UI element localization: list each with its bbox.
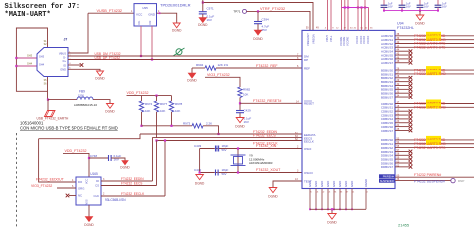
highlight	[426, 70, 441, 75]
svg-text:GND: GND	[326, 181, 330, 187]
svg-text:ID: ID	[63, 63, 66, 67]
svg-text:VCC: VCC	[86, 179, 89, 184]
svg-text:GND: GND	[338, 181, 342, 187]
svg-text:DP: DP	[304, 58, 308, 62]
svg-text:A4X33S12M00003: A4X33S12M00003	[249, 161, 273, 165]
svg-text:FT4232_EECS: FT4232_EECS	[121, 181, 142, 185]
wire GND pin 1	[309, 189, 311, 210]
svg-text:R978: R978	[175, 102, 183, 106]
capacitor C433	[215, 146, 217, 152]
svg-text:VREGIN: VREGIN	[311, 34, 315, 44]
wire EEPROM CLK	[101, 195, 165, 197]
wire BDBUS6 no-connect stub	[395, 92, 409, 94]
wire FT4232_UART2_RXD	[395, 106, 474, 108]
wire FB9 to DGND	[93, 100, 110, 104]
svg-text:NC: NC	[78, 194, 82, 198]
svg-text:VIO3_FT4232: VIO3_FT4232	[207, 73, 230, 77]
svg-text:2.2K: 2.2K	[206, 121, 212, 125]
capacitor C394	[254, 21, 262, 23]
svg-text:DGND: DGND	[235, 125, 245, 129]
wire caps rail to DGND	[419, 11, 421, 15]
wire TPD GND to DGND	[157, 13, 177, 23]
svg-text:DGND: DGND	[268, 195, 278, 199]
wire GND pin 3	[321, 189, 323, 210]
wire BDBUS3 no-connect stub	[395, 81, 409, 83]
wire VPHY stub	[327, 0, 329, 30]
wire FT4232_EEDIN line	[140, 133, 302, 135]
svg-text:GND: GND	[314, 181, 318, 187]
svg-text:CON MICRO USB-B TYPE 5POS FEMA: CON MICRO USB-B TYPE 5POS FEMALE RT SMD	[20, 126, 118, 131]
wire bottom ground rail	[310, 208, 366, 210]
wire EECLK vertical to EEPROM CLK	[164, 141, 166, 197]
rail VCC magenta	[342, 7, 369, 9]
wire VBUS	[68, 13, 88, 53]
ESD chip U95 TPD2E001DRLR	[134, 4, 157, 26]
pin PWREN# highlighted	[379, 174, 395, 178]
svg-text:10K: 10K	[160, 109, 165, 113]
svg-text:FT4232 PWREN#: FT4232 PWREN#	[414, 173, 441, 177]
svg-text:93LC56B-I/SN: 93LC56B-I/SN	[105, 198, 126, 202]
svg-text:GND: GND	[332, 181, 336, 187]
ground DGND bottom of IC	[328, 214, 336, 220]
svg-text:DGND: DGND	[84, 223, 94, 227]
junction EEDATA	[217, 133, 219, 135]
svg-text:C429: C429	[244, 109, 252, 113]
svg-text:10K: 10K	[145, 109, 150, 113]
junction IO1 on DM line	[140, 55, 142, 57]
svg-text:16V: 16V	[424, 5, 429, 9]
svg-text:50V: 50V	[222, 148, 227, 152]
svg-text:16V: 16V	[406, 5, 411, 9]
junction IO2 on DP line	[151, 58, 153, 60]
svg-text:VSS: VSS	[86, 199, 89, 204]
EEPROM U165 93LC56B-I/SN	[76, 177, 101, 205]
svg-text:DGND: DGND	[120, 166, 130, 170]
wire R982 to RESET junction	[239, 98, 241, 111]
svg-text:GND: GND	[60, 68, 66, 72]
svg-text:C971: C971	[207, 7, 215, 11]
wire FT4232_EECS line	[153, 136, 303, 138]
junction EECLK branch	[164, 139, 166, 141]
svg-text:DGND: DGND	[195, 182, 205, 186]
svg-text:FT4232_EECS: FT4232_EECS	[253, 134, 277, 138]
wire ORG	[57, 187, 76, 189]
highlight	[426, 140, 441, 145]
svg-text:J7: J7	[64, 38, 68, 42]
svg-text:OSCO: OSCO	[304, 171, 314, 175]
svg-text:SH3: SH3	[39, 55, 45, 59]
wire CDBUS7 no-connect stub	[395, 129, 409, 131]
svg-text:R904: R904	[196, 63, 204, 67]
wire C971 bottom	[202, 14, 204, 18]
wire GND pin 6	[339, 189, 341, 210]
wire TP71 to VREGIN	[247, 11, 311, 30]
svg-text:FT4232 UART2 RXD: FT4232 UART2 RXD	[414, 106, 446, 110]
wire VCORE stubs	[341, 0, 343, 30]
wire EEDOUT left leg	[39, 139, 76, 182]
svg-text:16V: 16V	[388, 5, 393, 9]
no-connect X	[409, 80, 413, 84]
svg-text:FT4232 UART3 RTS: FT4232 UART3 RTS	[414, 146, 446, 150]
no-connect X	[409, 113, 413, 117]
wire ACBUS6 no-connect stub	[395, 58, 409, 60]
wire SH3	[16, 57, 37, 59]
no-connect X at NC	[66, 194, 70, 198]
wire C971 top stub	[202, 0, 204, 12]
ground DGND at R904	[188, 73, 196, 78]
svg-text:Silkscreen for J7:: Silkscreen for J7:	[5, 3, 81, 11]
svg-text:DGND: DGND	[415, 22, 425, 26]
svg-text:ACBUS7: ACBUS7	[381, 61, 393, 65]
svg-text:DGND: DGND	[187, 79, 197, 83]
svg-text:25V: 25V	[262, 28, 267, 32]
svg-text:FT4232HL: FT4232HL	[397, 26, 414, 30]
svg-text:FT4232_XOUT: FT4232_XOUT	[256, 168, 281, 172]
svg-text:R982: R982	[243, 88, 251, 92]
svg-text:CDBUS7: CDBUS7	[381, 129, 394, 133]
svg-text:SH3: SH3	[27, 54, 33, 58]
wire FT4232_UART1_RXD	[395, 73, 474, 75]
wire EEPROM CS	[101, 185, 157, 187]
junction crystal bottom	[237, 171, 239, 173]
svg-text:VBUS: VBUS	[59, 51, 66, 55]
no-connect X	[409, 84, 413, 88]
svg-text:IO2: IO2	[149, 20, 152, 25]
junction SH3	[15, 57, 17, 59]
wire EEDATA jog down	[39, 134, 140, 139]
wire FT4232_EECLK line	[157, 140, 303, 142]
wire EEPROM VSS to DGND	[88, 205, 90, 217]
capacitor bypass 2	[401, 0, 403, 5]
wire FT4232_SUSPEND#	[395, 180, 451, 182]
junction C394	[257, 10, 259, 12]
wire FT4232_UART3_TXD	[395, 139, 474, 141]
wire ACBUS4 no-connect stub	[395, 50, 409, 52]
wire DDBUS4 no-connect stub	[395, 154, 409, 156]
svg-text:VCCIO: VCCIO	[366, 36, 370, 44]
wire DDBUS7 no-connect stub	[395, 166, 409, 168]
wire VCCIO stubs	[357, 8, 359, 31]
svg-text:DI: DI	[96, 179, 99, 183]
crystal Y9	[234, 157, 243, 165]
wire CDBUS5 no-connect stub	[395, 122, 409, 124]
wire EEPROM DI	[101, 180, 153, 182]
wire IO2 stub	[151, 26, 153, 60]
svg-text:12K 1%: 12K 1%	[218, 63, 229, 67]
svg-text:GND: GND	[320, 181, 324, 187]
svg-text:FT4232 UART1 RXD: FT4232 UART1 RXD	[414, 72, 446, 76]
svg-text:GND: GND	[308, 181, 312, 187]
svg-text:R973: R973	[183, 121, 191, 125]
svg-text:VPHY: VPHY	[325, 35, 329, 42]
rail caps bottom	[384, 10, 438, 12]
svg-text:FT4232_EECLK: FT4232_EECLK	[121, 192, 145, 196]
svg-text:D+: D+	[63, 59, 67, 63]
earth symbol USB_FT4232_EARTH	[45, 111, 56, 117]
wire FT4232_UART3_RXD	[395, 143, 474, 145]
highlight	[426, 36, 441, 41]
svg-text:*MAIN-UART*: *MAIN-UART*	[5, 11, 51, 19]
wire VDD to EEPROM VCC	[63, 153, 89, 177]
junction R977 top	[155, 95, 157, 97]
svg-text:L0805B#1015-10: L0805B#1015-10	[74, 103, 97, 107]
capacitor bypass 3	[419, 0, 421, 5]
wire BDBUS7 no-connect stub	[395, 96, 409, 98]
svg-text:DNP: DNP	[458, 179, 464, 183]
svg-text:SUSPEND#: SUSPEND#	[380, 179, 395, 183]
wire J7 GND to DGND	[68, 69, 100, 71]
wire EEDIN vertical to EEPROM DI	[152, 137, 154, 181]
svg-text:R974: R974	[145, 102, 153, 106]
no-connect X	[409, 161, 413, 165]
svg-text:ORG: ORG	[78, 187, 84, 191]
svg-text:VCC: VCC	[136, 13, 143, 17]
wire CDBUS2 no-connect stub	[395, 110, 409, 112]
wire XOUT line	[200, 172, 302, 174]
svg-text:GND: GND	[148, 13, 156, 17]
wire TEST to DGND	[273, 181, 302, 188]
wire CDBUS4 no-connect stub	[395, 118, 409, 120]
ferrite bead FB9	[77, 97, 93, 100]
resistor R982	[238, 87, 242, 98]
svg-text:10K: 10K	[243, 93, 248, 97]
no-connect X	[409, 150, 413, 154]
ground DGND at C748	[122, 161, 128, 165]
svg-text:CLK: CLK	[94, 194, 100, 198]
capacitor C429	[236, 110, 244, 112]
svg-text:VIO3_FT4232: VIO3_FT4232	[31, 184, 52, 188]
wire R904 to REF pin	[216, 67, 302, 69]
wire USB_DP_FT4232	[68, 59, 302, 61]
capacitor C971	[199, 11, 207, 13]
highlight	[426, 100, 441, 105]
svg-text:VPLL: VPLL	[329, 35, 333, 42]
svg-text:U95: U95	[142, 6, 148, 10]
wire shield to FB9	[48, 99, 77, 101]
wire NC stub	[69, 195, 76, 197]
svg-text:VREGOUT: VREGOUT	[306, 33, 310, 46]
wire VCCIO risers	[357, 0, 359, 8]
resistor R978	[171, 96, 173, 101]
svg-text:VCCIO: VCCIO	[362, 36, 366, 44]
svg-text:VCCIO: VCCIO	[355, 36, 359, 44]
svg-text:RESET: RESET	[304, 102, 314, 106]
svg-text:21455: 21455	[398, 223, 410, 228]
svg-text:DGND: DGND	[105, 110, 115, 114]
svg-text:VTRF_FT4232: VTRF_FT4232	[260, 7, 285, 11]
svg-text:IO1: IO1	[138, 20, 141, 25]
net tie green symbol	[176, 49, 182, 55]
svg-text:DGND: DGND	[327, 221, 337, 225]
highlight	[426, 136, 441, 141]
svg-text:FT4232_EEDIN: FT4232_EEDIN	[121, 177, 144, 181]
wire ACBUS5 no-connect stub	[395, 54, 409, 56]
wire to C748	[89, 157, 108, 159]
highlight	[426, 103, 441, 108]
svg-text:C748: C748	[90, 154, 98, 158]
svg-text:VCORE: VCORE	[339, 37, 343, 46]
wire FT4232_UART2_TXD	[395, 103, 474, 105]
no-connect X	[409, 76, 413, 80]
no-connect X	[409, 53, 413, 57]
wire R904 left to DGND	[191, 68, 193, 73]
svg-text:GND: GND	[350, 181, 354, 187]
wire shield bottom stub	[47, 77, 49, 100]
dashed border segment	[16, 133, 18, 227]
no-connect X	[409, 165, 413, 169]
wire ID no-connect	[68, 64, 80, 66]
wire BDBUS2 no-connect stub	[395, 77, 409, 79]
svg-text:R977: R977	[160, 102, 168, 106]
svg-text:BDBUS7: BDBUS7	[381, 95, 393, 99]
ground DGND after FB9	[107, 104, 114, 109]
wire C429 bottom	[239, 113, 241, 118]
svg-text:C433: C433	[194, 144, 202, 148]
no-connect X	[409, 49, 413, 53]
wire ACBUS7 no-connect stub	[395, 62, 409, 64]
wire CDBUS6 no-connect stub	[395, 126, 409, 128]
wire FT4232_PWREN#	[395, 176, 474, 178]
svg-text:VUSB_FT4232: VUSB_FT4232	[97, 9, 123, 13]
svg-text:VCORE: VCORE	[345, 37, 349, 46]
svg-text:FT4232_XIN: FT4232_XIN	[256, 144, 277, 148]
ground DGND at crystal	[196, 175, 204, 180]
connector DNP circle	[451, 178, 455, 182]
wire FT4232_UART0_RXD	[395, 39, 474, 41]
IC U94 FT4232HL body	[302, 30, 395, 188]
svg-text:FT4232 SUSPEND#: FT4232 SUSPEND#	[414, 179, 445, 183]
svg-text:SH4: SH4	[27, 62, 33, 66]
wire DDBUS5 no-connect stub	[395, 158, 409, 160]
ground DGND below EEPROM	[85, 217, 93, 222]
svg-text:OSCI: OSCI	[304, 147, 312, 151]
pin SUSPEND# highlighted	[379, 179, 395, 183]
wire DDBUS3 no-connect stub	[395, 150, 409, 152]
no-connect X	[409, 117, 413, 121]
junction rail dots	[344, 6, 346, 8]
junction R977 bottom on EECLK	[155, 139, 157, 141]
resistor R977	[156, 96, 158, 101]
wire GND pin 5	[333, 189, 335, 210]
wire pullup rail	[127, 95, 172, 97]
svg-text:TPD2E001DRLR: TPD2E001DRLR	[160, 3, 191, 8]
wire crystal vertical	[237, 149, 239, 173]
junction shield/ferrite node	[47, 99, 49, 101]
no-connect X	[409, 91, 413, 95]
svg-text:DGND: DGND	[172, 29, 182, 33]
no-connect X	[409, 154, 413, 158]
no-connect X	[409, 109, 413, 113]
svg-text:16V: 16V	[244, 120, 249, 124]
ground DGND caps	[416, 15, 424, 20]
junction RESET node	[239, 102, 241, 104]
no-connect X	[409, 57, 413, 61]
junction R978 bottom	[170, 125, 172, 127]
highlight	[426, 32, 441, 37]
svg-text:REF: REF	[304, 66, 310, 70]
wire USB_DM_FT4232	[68, 55, 302, 57]
wire FT4232_UART0_CTS	[395, 46, 474, 48]
svg-text:EECLK: EECLK	[304, 139, 314, 143]
wire GND pin 7	[345, 189, 347, 210]
ground DGND below C394	[254, 30, 262, 35]
svg-text:DGND: DGND	[253, 37, 263, 41]
wire BDBUS5 no-connect stub	[395, 88, 409, 90]
svg-text:GND: GND	[344, 181, 348, 187]
svg-text:SH4: SH4	[39, 63, 45, 67]
wire RESET to IC	[240, 102, 302, 104]
svg-text:FT4232_REF: FT4232_REF	[256, 64, 278, 68]
junction C748 branch	[88, 157, 90, 159]
no-connect X	[409, 121, 413, 125]
capacitor bypass 4	[437, 0, 439, 5]
svg-text:AGND: AGND	[364, 179, 368, 187]
wire rail to DGND	[331, 209, 333, 213]
svg-text:50V: 50V	[222, 172, 227, 176]
resistor R974	[141, 96, 143, 101]
wire crystal left leg	[199, 149, 201, 174]
wire CDBUS3 no-connect stub	[395, 114, 409, 116]
junction SH4	[15, 65, 17, 67]
svg-text:U165: U165	[90, 172, 98, 176]
svg-text:PWREN#: PWREN#	[383, 175, 395, 179]
wire shield to earth	[47, 100, 49, 111]
svg-text:C394: C394	[262, 18, 270, 22]
svg-text:D-: D-	[63, 55, 66, 59]
svg-text:DGND: DGND	[95, 77, 105, 81]
svg-text:FT4232_RESET#: FT4232_RESET#	[253, 99, 281, 103]
svg-text:TP71: TP71	[233, 10, 241, 14]
ground DGND at TEST	[269, 188, 277, 193]
wire shield loop of J7	[16, 28, 47, 91]
svg-text:VDD_FT4232: VDD_FT4232	[127, 91, 149, 95]
wire DDBUS6 no-connect stub	[395, 162, 409, 164]
svg-text:10K: 10K	[175, 109, 180, 113]
wire FT4232_UART0_TXD	[395, 35, 474, 37]
wire C394 stub	[257, 11, 259, 21]
wire top VUSB rail	[203, 3, 313, 31]
svg-text:1500: 1500	[78, 94, 84, 98]
junction C971 top	[202, 1, 204, 3]
svg-text:16V: 16V	[442, 5, 447, 9]
wire VPLL stub	[330, 0, 332, 30]
wire VIO3 to R982	[205, 77, 240, 87]
wire EECS vertical to EEPROM CS	[156, 141, 158, 186]
wire EEDOUT line with R973	[140, 125, 142, 127]
svg-text:VCCIO: VCCIO	[359, 36, 363, 44]
wire SH4	[16, 65, 37, 67]
svg-text:CS: CS	[95, 184, 99, 188]
no-connect X on ID	[80, 63, 84, 67]
ground DGND below C971	[199, 18, 207, 23]
wire IO1 stub	[140, 26, 142, 56]
svg-text:USB_DP_FT4232: USB_DP_FT4232	[95, 56, 121, 60]
svg-text:FB9: FB9	[79, 89, 85, 93]
wire GND pin 8	[351, 189, 353, 210]
wire R973 to EEDATA line	[203, 126, 219, 134]
wire FT4232_UART1_TXD	[395, 69, 474, 71]
no-connect X	[409, 157, 413, 161]
no-connect X	[409, 88, 413, 92]
wire XIN line	[200, 148, 302, 150]
svg-text:16V: 16V	[207, 18, 212, 22]
wire net VUSB_FT4232	[88, 12, 134, 14]
highlight	[426, 66, 441, 71]
no-connect X	[409, 129, 413, 133]
wire FT4232_UART3_RTS	[395, 147, 474, 149]
ground DGND at TPD	[173, 23, 180, 28]
wire FT4232_UART0_RTS	[395, 43, 474, 45]
